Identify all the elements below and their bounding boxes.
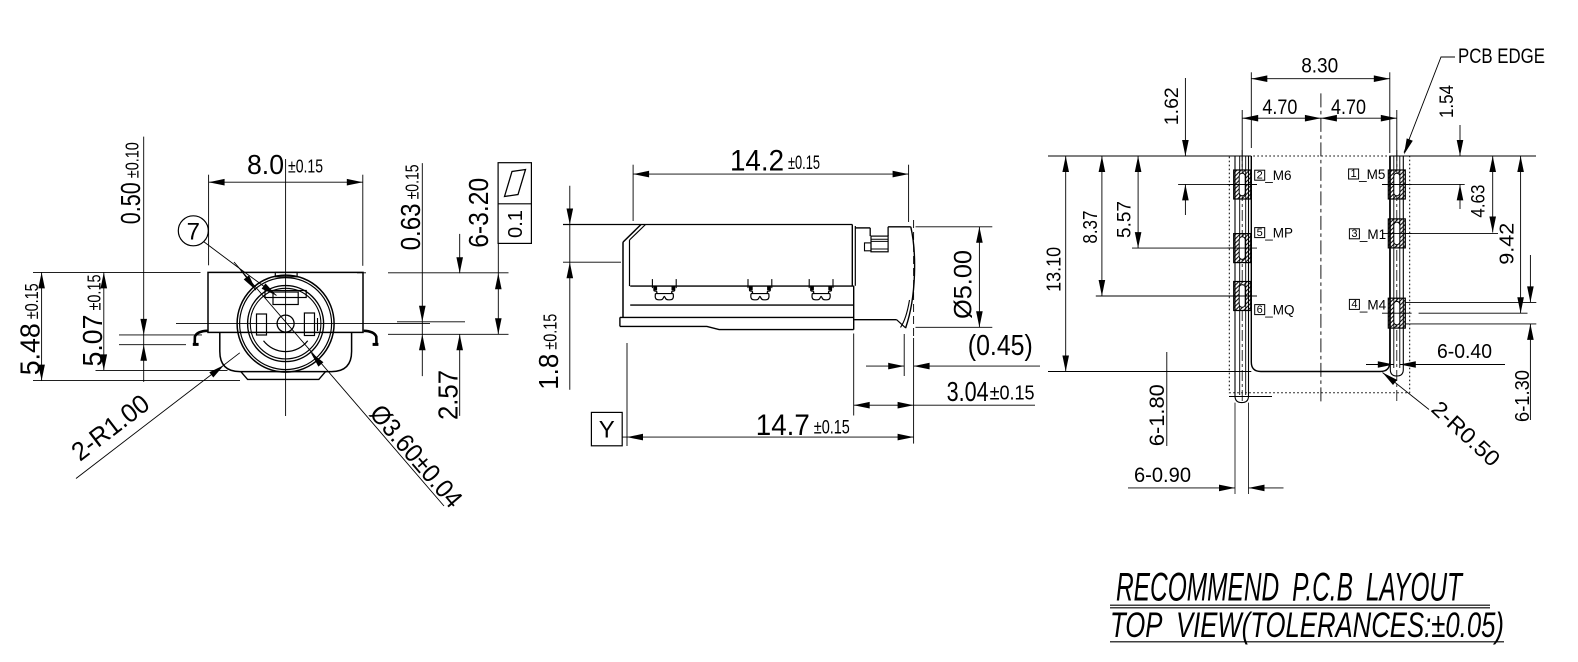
svg-text:0.50: 0.50	[115, 182, 146, 224]
dimension 5.07±0.15	[103, 272, 105, 370]
pcb layout: pad M4	[1388, 298, 1405, 328]
ref line U bottom left ext	[1048, 371, 1251, 373]
dimension (0.45)	[903, 334, 905, 376]
side view: barrel notch and nub	[869, 228, 871, 236]
ref line MQ center	[1096, 295, 1234, 297]
dimension 6-0.40	[1366, 364, 1394, 366]
dimension 8.0±0.15 extension lines	[208, 175, 210, 266]
dimension 5.48±0.15	[41, 272, 43, 380]
svg-text:6-0.40: 6-0.40	[1437, 341, 1492, 363]
side view: base line	[630, 304, 854, 306]
svg-text:5.48: 5.48	[14, 323, 45, 375]
svg-text:6-1.80: 6-1.80	[1146, 384, 1169, 446]
svg-text:4.63: 4.63	[1469, 185, 1490, 218]
dimension 5.57	[1137, 156, 1139, 248]
svg-text:TOP VIEW(TOLERANCES:±0.05): TOP VIEW(TOLERANCES:±0.05)	[1110, 606, 1504, 645]
svg-text:0.63: 0.63	[395, 203, 426, 250]
dimension 1.54	[1459, 125, 1461, 156]
front view: inner shield circle	[250, 288, 321, 359]
extension line 5.48 bottom	[33, 380, 240, 382]
svg-text:±0.15: ±0.15	[22, 283, 42, 319]
pcb layout: pad M1	[1388, 219, 1405, 248]
side view: barrel top	[855, 227, 870, 229]
front view: center pin hole	[277, 315, 294, 332]
dimension 6-1.80	[1166, 352, 1168, 446]
front view: insert bottom arc	[264, 341, 308, 352]
svg-text:±0.15: ±0.15	[84, 275, 104, 311]
dimension 9.42	[1520, 156, 1522, 313]
datum Y box	[591, 412, 622, 445]
dimension 6-3.20	[497, 243, 499, 334]
front view: mounting bracket	[220, 332, 352, 371]
balloon 7 callout	[178, 216, 208, 246]
pcb layout: top edge left with extension	[1048, 155, 1251, 157]
diameter 3.60 text	[364, 398, 469, 513]
dimension 14.7±0.15	[626, 343, 628, 446]
side view: left wall	[622, 242, 624, 317]
side view: barrel dome end	[906, 227, 915, 328]
side view: barrel end chamfer	[897, 320, 906, 328]
svg-text:5.57: 5.57	[1115, 201, 1136, 238]
ref line slot bottom	[1229, 396, 1272, 398]
dimension 2.57	[459, 234, 461, 273]
front view: right solder leg	[364, 331, 377, 345]
extension line top left	[33, 271, 201, 273]
svg-text:_MQ: _MQ	[1264, 303, 1294, 318]
front view: shield opening circle	[248, 286, 324, 362]
ref line M4 center	[1419, 312, 1528, 314]
svg-text:±0.15: ±0.15	[990, 383, 1035, 405]
svg-text:0.1: 0.1	[505, 210, 527, 238]
side view: solder clip at x=664.3	[651, 279, 653, 288]
dimension 4.63	[1492, 156, 1494, 233]
svg-text:8.37: 8.37	[1080, 211, 1102, 244]
side view: barrel bottom	[854, 319, 896, 321]
svg-text:±0.15: ±0.15	[288, 157, 323, 177]
pcb layout: center dash-dot line	[1320, 93, 1322, 401]
svg-text:9.42: 9.42	[1497, 223, 1519, 265]
dimension 13.10	[1065, 156, 1067, 372]
svg-text:3: 3	[1351, 228, 1357, 240]
svg-text:4.70: 4.70	[1331, 96, 1366, 119]
svg-text:RECOMMEND P.C.B LAYOUT: RECOMMEND P.C.B LAYOUT	[1116, 566, 1464, 610]
svg-text:1.54: 1.54	[1437, 85, 1458, 118]
pcb layout: U-shaped slot outline	[1251, 156, 1390, 372]
svg-text:(0.45): (0.45)	[968, 330, 1033, 362]
svg-text:_M4: _M4	[1359, 297, 1387, 312]
svg-text:_M5: _M5	[1358, 167, 1385, 182]
svg-text:4: 4	[1351, 299, 1357, 311]
pcb layout: right slot channel lines	[1393, 156, 1395, 368]
radius 2-R0.50 leader	[1383, 373, 1430, 410]
ref line M4 slot top	[1405, 301, 1537, 303]
dimension diameter 5.00	[916, 226, 993, 228]
svg-text:±0.15: ±0.15	[788, 153, 820, 174]
side view: left chamfer	[623, 225, 641, 243]
balloon 7 leader	[204, 242, 240, 269]
svg-text:7: 7	[187, 219, 200, 246]
svg-text:±0.15: ±0.15	[541, 314, 561, 350]
front view: left contact slot	[257, 314, 267, 335]
pad label 5_MP	[1255, 228, 1265, 238]
extension line right top	[388, 272, 509, 274]
dimension 8.37	[1101, 156, 1103, 296]
dimension 0.63±0.15	[421, 163, 423, 376]
svg-text:6-1.30: 6-1.30	[1512, 370, 1534, 422]
front view: bottom foot	[241, 372, 326, 380]
svg-text:1.62: 1.62	[1162, 87, 1183, 125]
front view: outer barrel inner wall circle	[240, 278, 332, 370]
dimension 6-1.30	[1529, 255, 1531, 302]
svg-text:_M1: _M1	[1359, 227, 1386, 242]
svg-text:6: 6	[1257, 304, 1263, 316]
svg-text:_M6: _M6	[1264, 168, 1291, 183]
svg-text:6-0.90: 6-0.90	[1134, 464, 1191, 487]
front view: right contact slot	[304, 313, 314, 336]
ref line MP center	[1132, 247, 1234, 249]
pcb layout: pad MQ	[1234, 282, 1251, 311]
side view: clip rail line	[630, 285, 854, 287]
pcb layout: phantom body outline	[1229, 156, 1409, 393]
pad label 4_M4	[1349, 299, 1359, 309]
svg-text:±0.10: ±0.10	[123, 142, 143, 178]
front view: top key notch	[275, 272, 297, 276]
side view: solder clip at x=759.9	[747, 279, 749, 288]
extension line right bottom	[388, 333, 509, 335]
side view: solder clip at x=821.1	[808, 279, 810, 288]
pcb layout: left slot outline	[1235, 156, 1249, 403]
dimension 8.0±0.15	[209, 181, 363, 183]
pad label 2_M6	[1255, 170, 1265, 180]
svg-text:5: 5	[1257, 227, 1263, 239]
dimension 14.2±0.15 extension lines	[632, 165, 634, 221]
radius 2-R1.00 leader	[76, 353, 240, 479]
pcb layout: left slot extension lines	[1234, 403, 1236, 494]
extension line right slot	[397, 321, 465, 323]
svg-text:PCB EDGE: PCB EDGE	[1458, 45, 1545, 68]
front view: horizontal centerline	[176, 323, 430, 325]
pcb layout: pad M5	[1388, 170, 1405, 199]
pad label 3_M1	[1349, 229, 1359, 239]
front view: key slot outer	[265, 291, 306, 298]
side view: right edge	[851, 225, 853, 286]
pad label 6_MQ	[1255, 305, 1265, 315]
ref line M6 center	[1178, 183, 1234, 185]
svg-text:Ø5.00: Ø5.00	[950, 250, 978, 319]
svg-text:14.2: 14.2	[730, 144, 784, 177]
svg-text:Y: Y	[599, 417, 615, 444]
dimension 1.8±0.15	[569, 186, 571, 390]
front view: key slot inner	[273, 292, 298, 305]
svg-text:13.10: 13.10	[1044, 247, 1066, 292]
dimension 1.62	[1184, 78, 1186, 156]
svg-text:2: 2	[1257, 169, 1263, 181]
side view: body top edge	[563, 224, 852, 226]
svg-text:1: 1	[1351, 168, 1357, 180]
svg-text:4.70: 4.70	[1262, 96, 1297, 119]
side view: barrel top right	[888, 226, 911, 228]
pcb layout: pad MP	[1234, 234, 1251, 263]
extension line 5.07 bottom	[96, 369, 228, 371]
front view: shield body rectangle	[208, 272, 363, 332]
svg-text:_MP: _MP	[1264, 226, 1293, 241]
svg-text:±0.15: ±0.15	[814, 418, 850, 439]
side view: plate line	[620, 316, 854, 318]
svg-text:14.7: 14.7	[756, 409, 810, 442]
svg-text:6-3.20: 6-3.20	[463, 178, 494, 248]
front view: outer barrel circle	[237, 275, 334, 372]
svg-text:±0.15: ±0.15	[402, 164, 422, 199]
svg-text:8.0: 8.0	[247, 149, 284, 180]
svg-text:3.04: 3.04	[947, 376, 989, 407]
diameter 3.60 leader line	[234, 262, 444, 506]
svg-text:5.07: 5.07	[77, 315, 108, 367]
pcb layout: right slot outline	[1390, 156, 1403, 376]
pcb layout: top edge right with extension	[1390, 155, 1536, 157]
ref line M1 center	[1405, 232, 1498, 234]
pcb layout: left slot channel lines	[1239, 156, 1241, 395]
front view: vertical centerline	[285, 159, 287, 416]
pcb layout: left column centerline	[1241, 150, 1243, 403]
front view: left solder leg	[195, 331, 208, 345]
ref line M4 slot bottom	[1405, 323, 1537, 325]
flatness feature control frame	[498, 163, 531, 244]
svg-text:8.30: 8.30	[1301, 55, 1338, 78]
dimension 3.04±0.15	[853, 334, 855, 416]
pcb layout: pad M6	[1234, 170, 1251, 199]
dimension 4.70 left	[1241, 110, 1243, 170]
dimension 0.50±0.10	[143, 137, 145, 382]
svg-text:1.8: 1.8	[533, 354, 564, 390]
pad label 1_M5	[1349, 169, 1359, 179]
dimension 4.70 right	[1396, 110, 1398, 170]
ref line M5 center	[1405, 183, 1464, 185]
dimension 8.30	[1250, 72, 1252, 148]
side view: bottom edge	[620, 326, 854, 329]
pcb layout: right column centerline	[1396, 150, 1398, 403]
side view: end plane dashed line	[913, 220, 915, 338]
svg-text:2.57: 2.57	[433, 370, 464, 420]
dimension 14.2±0.15	[633, 173, 909, 175]
